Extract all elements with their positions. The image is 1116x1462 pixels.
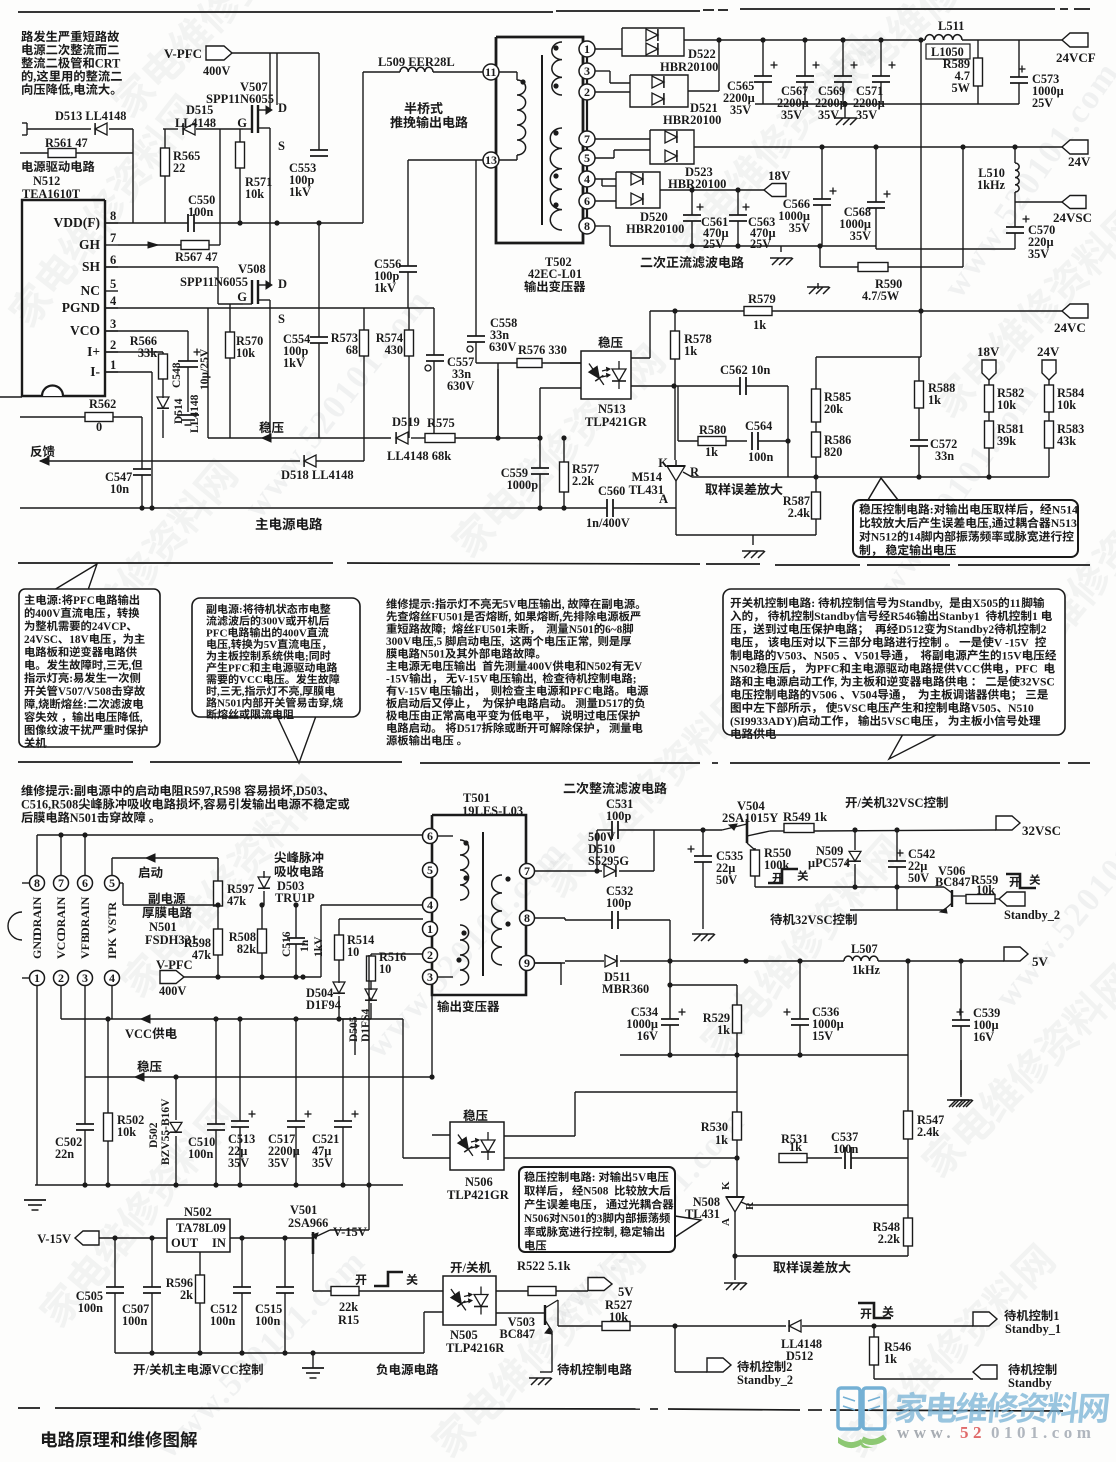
- resistor R590: [820, 147, 963, 303]
- svg-text:CRT: CRT: [95, 56, 121, 70]
- mosfet V508: [180, 223, 287, 438]
- svg-text:35V: 35V: [1028, 247, 1049, 261]
- svg-text:25V: 25V: [1032, 96, 1053, 110]
- svg-text:D502: D502: [148, 1122, 160, 1148]
- label feedback: [31, 445, 55, 457]
- svg-text:A: A: [720, 1218, 732, 1226]
- wire SH-gate: [105, 267, 243, 304]
- svg-text:,: ,: [200, 797, 203, 811]
- svg-text:V501: V501: [854, 649, 880, 662]
- svg-text:35V: 35V: [789, 221, 810, 235]
- node 24VC: [1054, 304, 1088, 335]
- capacitor C567: [796, 40, 820, 104]
- resistor R549: [783, 810, 827, 833]
- ground: [24, 1200, 46, 1210]
- wire: [631, 383, 678, 388]
- svg-text:VCO: VCO: [70, 323, 100, 338]
- svg-text:400V: 400V: [35, 608, 61, 620]
- wire pin4: [595, 179, 616, 186]
- svg-text:PFC: PFC: [73, 595, 95, 607]
- capacitor C513: [228, 1019, 256, 1185]
- resistor R531: [779, 1132, 842, 1163]
- pin 7: [579, 131, 595, 147]
- svg-text:DRAIN: DRAIN: [78, 896, 92, 936]
- wire pin6: [595, 200, 616, 202]
- transistor V504 2SA1015Y: [722, 799, 778, 850]
- pin labels N512: [54, 209, 119, 379]
- ground: [947, 1060, 970, 1107]
- svg-text:D517: D517: [457, 723, 482, 735]
- capacitor C512: [210, 1238, 251, 1353]
- label onoff 32vsc: [846, 796, 948, 810]
- svg-text:VCC: VCC: [125, 1027, 152, 1041]
- logo 520101: [838, 1388, 1109, 1448]
- diode D521: [630, 75, 721, 127]
- wire: [318, 53, 320, 150]
- svg-text:D519: D519: [392, 415, 420, 429]
- resistor R584: [1045, 380, 1085, 412]
- resistor R589: [943, 40, 983, 104]
- wire main bus: [20, 505, 676, 510]
- svg-text:R522 5.1k: R522 5.1k: [517, 1259, 571, 1273]
- svg-text:L507: L507: [851, 942, 878, 956]
- ground: [770, 246, 793, 265]
- resistor R573: [331, 308, 369, 438]
- pin 7 T501: [520, 864, 535, 879]
- svg-text:N501: N501: [70, 811, 97, 825]
- svg-text:10k: 10k: [997, 398, 1016, 412]
- svg-text:5V: 5V: [264, 639, 278, 651]
- svg-text:5V: 5V: [1032, 954, 1049, 969]
- pin 3 T501: [423, 970, 438, 985]
- wire pin2: [595, 91, 630, 93]
- svg-text:FU501: FU501: [431, 611, 463, 623]
- svg-text:SPP11N6055: SPP11N6055: [180, 275, 248, 289]
- resistor R562: [20, 397, 142, 434]
- wire 18V: [660, 187, 764, 192]
- capacitor C560: [586, 484, 630, 530]
- svg-text:10k: 10k: [245, 187, 264, 201]
- svg-text::: :: [69, 673, 73, 685]
- svg-text:V-15V: V-15V: [397, 686, 428, 698]
- wire PGND: [105, 307, 434, 309]
- ground: [692, 934, 715, 941]
- svg-text:2: 2: [786, 1360, 792, 1374]
- svg-text:100n: 100n: [78, 1301, 103, 1315]
- label sec filter: [564, 782, 667, 794]
- svg-text::: :: [58, 595, 62, 607]
- wire pin7: [595, 138, 650, 140]
- wire VCC bus: [61, 985, 403, 1023]
- svg-text:VSTR: VSTR: [105, 902, 119, 934]
- label C571: [853, 84, 885, 122]
- svg-text:D518 LL4148: D518 LL4148: [281, 468, 354, 482]
- wire gnd bus main: [35, 1182, 403, 1187]
- pin 9 T501: [520, 956, 535, 971]
- svg-text:35V: 35V: [850, 229, 871, 243]
- svg-text:430: 430: [385, 343, 403, 357]
- svg-text:,: ,: [228, 639, 231, 651]
- label VCC: [125, 1027, 177, 1041]
- resistor R514: [335, 933, 375, 977]
- node 32VSC: [996, 816, 1061, 838]
- svg-text:1: 1: [1053, 1309, 1059, 1323]
- svg-text:100n: 100n: [210, 1314, 235, 1328]
- svg-text:Standby: Standby: [1008, 1376, 1053, 1390]
- svg-text:1k: 1k: [684, 344, 697, 358]
- svg-text:1kV: 1kV: [283, 356, 305, 370]
- resistor R587: [783, 477, 821, 535]
- label driver circuit: [22, 161, 95, 201]
- svg-text:100p: 100p: [606, 809, 631, 823]
- svg-text:5VSC: 5VSC: [881, 715, 910, 728]
- svg-text:TLP421GR: TLP421GR: [447, 1188, 510, 1202]
- label sampling: [705, 483, 782, 495]
- svg-text:PFC: PFC: [228, 663, 249, 675]
- svg-text:V506: V506: [811, 689, 837, 702]
- svg-text:TA78L09: TA78L09: [176, 1221, 226, 1235]
- svg-text:N506: N506: [524, 1213, 549, 1225]
- resistor R565: [161, 129, 201, 223]
- svg-text:,: ,: [70, 83, 73, 97]
- svg-text:R576 330: R576 330: [518, 343, 567, 357]
- ground: [177, 415, 199, 425]
- svg-text:2.2k: 2.2k: [572, 474, 594, 488]
- svg-text:0101.com: 0101.com: [991, 1423, 1095, 1442]
- label wenya: [259, 421, 283, 433]
- svg-text:5: 5: [584, 151, 590, 165]
- wire pin3: [595, 71, 630, 83]
- svg-text:IN: IN: [212, 1236, 226, 1250]
- svg-text:47k: 47k: [192, 948, 211, 962]
- svg-text::: :: [70, 784, 74, 798]
- svg-text:39k: 39k: [997, 434, 1016, 448]
- svg-text:1k: 1k: [928, 393, 941, 407]
- svg-text:;: ;: [443, 624, 447, 636]
- transistor V501 2SA966: [288, 1203, 369, 1291]
- wire R547 col: [907, 961, 909, 1111]
- svg-text:2: 2: [110, 338, 116, 352]
- svg-text:35V: 35V: [268, 1156, 289, 1170]
- svg-text:,: ,: [614, 1227, 617, 1239]
- resistor R566: [105, 334, 168, 379]
- svg-text:MBR360: MBR360: [602, 982, 649, 996]
- resistor R547: [904, 1111, 945, 1205]
- svg-text:Standby_1: Standby_1: [1005, 1322, 1061, 1336]
- capacitor C557: [425, 308, 474, 438]
- wire ipk col: [111, 985, 113, 1019]
- svg-text:A: A: [659, 492, 668, 506]
- svg-text:22: 22: [173, 161, 185, 175]
- transistor V503 BC847: [496, 1300, 558, 1372]
- svg-text:Standby_2: Standby_2: [1004, 908, 1060, 922]
- svg-text:,: ,: [989, 516, 992, 530]
- resistor R548: [873, 1205, 913, 1256]
- step symbol 3: [356, 1272, 418, 1286]
- svg-text:43k: 43k: [1057, 434, 1076, 448]
- svg-text:35V: 35V: [312, 1156, 333, 1170]
- wire gnd bus: [755, 101, 1019, 106]
- svg-text:N501: N501: [569, 624, 594, 636]
- svg-text:5: 5: [110, 277, 116, 291]
- svg-text:,: ,: [129, 660, 132, 672]
- svg-text:,5: ,5: [434, 636, 443, 648]
- svg-text:,: ,: [502, 636, 505, 648]
- svg-text:N501: N501: [149, 920, 177, 934]
- svg-text:D: D: [278, 101, 287, 115]
- svg-text:4: 4: [427, 898, 433, 912]
- svg-text:1k: 1k: [717, 1023, 730, 1037]
- resistor R502: [104, 1019, 145, 1185]
- svg-text:13: 13: [485, 153, 497, 167]
- svg-text:25V: 25V: [750, 237, 771, 251]
- wire 5V dots: [667, 958, 963, 963]
- capacitor C535: [688, 830, 744, 929]
- node 24VCF: [1056, 33, 1096, 65]
- svg-text:35V: 35V: [228, 1156, 249, 1170]
- node 18V sample: [977, 344, 1000, 380]
- svg-text:18V: 18V: [69, 634, 89, 646]
- capacitor C562: [678, 363, 788, 477]
- wire: [276, 53, 278, 105]
- capacitor C566: [778, 147, 836, 246]
- label C569: [815, 84, 847, 122]
- svg-text:100n: 100n: [188, 1147, 213, 1161]
- svg-text:HBR20100: HBR20100: [660, 60, 718, 74]
- svg-text:VFB: VFB: [78, 935, 92, 959]
- svg-text:µPC574: µPC574: [808, 856, 850, 870]
- svg-text:D505: D505: [348, 1016, 360, 1042]
- resistor R527: [558, 1298, 786, 1331]
- svg-text:1: 1: [34, 971, 40, 985]
- resistor R598: [184, 906, 223, 977]
- svg-text:6: 6: [110, 253, 116, 267]
- svg-text:R549 1k: R549 1k: [783, 810, 827, 824]
- wire: [402, 1019, 404, 1158]
- wire top bus: [37, 832, 423, 875]
- svg-text::: :: [431, 599, 435, 611]
- node 5V out: [588, 1278, 633, 1300]
- svg-text:GH: GH: [79, 237, 101, 252]
- wire start: [112, 854, 218, 875]
- wire vcc ctl bus: [115, 1350, 424, 1355]
- note standby control: [723, 589, 1065, 759]
- capacitor C573: [1010, 40, 1064, 110]
- capacitor C558: [467, 160, 517, 363]
- svg-text:100n: 100n: [122, 1314, 147, 1328]
- svg-text:18V: 18V: [768, 168, 791, 183]
- svg-text:V504: V504: [852, 689, 878, 702]
- wire: [132, 129, 134, 223]
- svg-text:N505: N505: [450, 1328, 478, 1342]
- svg-text:V505: V505: [971, 702, 997, 715]
- diode N509 uPC574: [808, 830, 861, 887]
- svg-text:19LES-L03: 19LES-L03: [462, 804, 523, 818]
- svg-text:V507/V508: V507/V508: [58, 686, 112, 698]
- svg-text:N501: N501: [560, 1213, 585, 1225]
- svg-text:1: 1: [1032, 610, 1038, 623]
- svg-text:X505: X505: [972, 597, 998, 610]
- svg-text:1k: 1k: [884, 1352, 897, 1366]
- wire: [504, 1155, 740, 1160]
- svg-text:32VSC: 32VSC: [795, 913, 833, 927]
- svg-text:24VCF: 24VCF: [1056, 50, 1096, 65]
- op-amp N505 TLP4216R: [443, 1276, 505, 1355]
- svg-text:Stanby1: Stanby1: [939, 610, 980, 623]
- wire gnd bus 5v: [620, 1052, 908, 1057]
- svg-text:R567 47: R567 47: [175, 250, 218, 264]
- capacitor C568: [839, 147, 890, 249]
- node 24VSC: [1015, 196, 1092, 226]
- svg-text:,: ,: [834, 676, 837, 689]
- svg-text:2: 2: [584, 85, 590, 99]
- wire pin2: [371, 953, 423, 955]
- svg-text:2SA966: 2SA966: [288, 1216, 328, 1230]
- svg-text:LL4148 68k: LL4148 68k: [387, 449, 451, 463]
- svg-text:L511: L511: [938, 19, 964, 33]
- capacitor C516: [281, 905, 325, 977]
- svg-text:33k: 33k: [138, 346, 157, 360]
- capacitor C517: [268, 1019, 312, 1185]
- svg-text:R580: R580: [699, 423, 726, 437]
- ground: [724, 1283, 747, 1290]
- svg-text:;: ;: [305, 651, 309, 663]
- svg-text:D1FS4: D1FS4: [360, 1009, 372, 1042]
- svg-text:DRAIN: DRAIN: [54, 896, 68, 936]
- note regulation control: [853, 478, 1078, 557]
- svg-text:S: S: [278, 139, 285, 153]
- svg-text:1: 1: [584, 42, 590, 56]
- svg-text:7: 7: [524, 864, 530, 878]
- svg-text:www.: www.: [897, 1423, 955, 1442]
- svg-text:1k: 1k: [715, 1133, 728, 1147]
- svg-text:LL4148: LL4148: [189, 394, 201, 433]
- svg-text:4: 4: [110, 294, 117, 308]
- svg-text:6~8: 6~8: [605, 624, 623, 636]
- ground: [834, 104, 857, 125]
- svg-text:3: 3: [110, 317, 116, 331]
- capacitor C537: [831, 1130, 908, 1169]
- node Standby_2 out: [675, 1326, 793, 1387]
- label C565: [723, 79, 755, 117]
- svg-text:100n: 100n: [748, 450, 773, 464]
- svg-text:M514: M514: [632, 470, 663, 484]
- label T502: [524, 255, 585, 292]
- capacitor C570: [1006, 202, 1055, 261]
- svg-text:VCC: VCC: [239, 674, 263, 686]
- wire: [674, 386, 676, 460]
- svg-text:K: K: [720, 1181, 732, 1190]
- svg-text:400V: 400V: [282, 627, 307, 639]
- wire wenya bus: [85, 985, 435, 1081]
- wire bus3: [876, 248, 1015, 250]
- svg-text:11: 11: [485, 65, 496, 79]
- svg-text:V501: V501: [290, 1203, 317, 1217]
- capacitor C531: [597, 797, 654, 839]
- svg-text:V-15V: V-15V: [333, 1225, 367, 1239]
- svg-text:I+: I+: [87, 344, 100, 359]
- capacitor C554: [283, 223, 328, 438]
- svg-text:C548: C548: [171, 362, 183, 388]
- svg-text:,: ,: [559, 611, 562, 623]
- svg-text:R579: R579: [748, 292, 776, 306]
- svg-text:,: ,: [300, 686, 303, 698]
- wire pin5 loop: [119, 883, 123, 905]
- svg-text:100n: 100n: [255, 1314, 280, 1328]
- svg-text:3: 3: [82, 971, 88, 985]
- diode D519: [392, 415, 420, 444]
- svg-text:BZV55-B16V: BZV55-B16V: [160, 1098, 172, 1165]
- svg-text:6: 6: [427, 829, 433, 843]
- note repair hint middle: [386, 598, 648, 745]
- node Standby_1: [973, 1309, 1061, 1336]
- svg-text:HBR20100: HBR20100: [626, 222, 684, 236]
- node Standby_2 in: [999, 892, 1060, 922]
- svg-text:V503: V503: [776, 649, 802, 662]
- resistor R596: [166, 1252, 205, 1353]
- diode D502 zener: [148, 1077, 182, 1185]
- node 18V: [764, 168, 791, 197]
- svg-text:5VSC: 5VSC: [837, 702, 866, 715]
- resistor R522: [496, 1259, 588, 1296]
- wire: [495, 363, 500, 441]
- resistor R586: [812, 422, 852, 477]
- wire: [676, 534, 816, 536]
- svg-text:68: 68: [346, 343, 358, 357]
- svg-text:N513: N513: [1051, 516, 1077, 530]
- wire: [631, 311, 650, 358]
- svg-text:4: 4: [584, 172, 590, 186]
- svg-text:1: 1: [427, 922, 433, 936]
- svg-text:47k: 47k: [227, 894, 246, 908]
- wire: [816, 311, 921, 357]
- svg-text:24VC: 24VC: [1054, 320, 1086, 335]
- svg-text:7: 7: [58, 876, 64, 890]
- svg-text:820: 820: [824, 445, 842, 459]
- inductor L509: [363, 55, 483, 223]
- resistor R577: [560, 435, 600, 510]
- capacitor C510: [188, 1019, 225, 1185]
- svg-text:,: ,: [508, 611, 511, 623]
- capacitor C572: [910, 437, 957, 477]
- svg-text:,: ,: [534, 673, 537, 685]
- step symbol: [768, 869, 808, 883]
- label main supply: [256, 517, 323, 530]
- node V-PFC: [164, 46, 319, 78]
- svg-text:630V: 630V: [489, 340, 516, 354]
- label onoff opto: [451, 1261, 491, 1275]
- svg-text:G: G: [237, 116, 247, 130]
- svg-text:2: 2: [427, 948, 433, 962]
- title: [42, 1431, 197, 1448]
- svg-text:D1F94: D1F94: [306, 998, 341, 1012]
- svg-text:DRAIN: DRAIN: [30, 896, 44, 936]
- wire VDD bus: [237, 220, 363, 225]
- svg-text:22k: 22k: [339, 1300, 358, 1314]
- label wenya3: [463, 1109, 487, 1121]
- svg-text:32VSC: 32VSC: [1020, 676, 1055, 689]
- svg-text:4: 4: [109, 971, 115, 985]
- svg-text::: :: [592, 1172, 596, 1184]
- diode D520: [616, 172, 684, 236]
- svg-text:6: 6: [82, 876, 88, 890]
- resistor R546: [870, 1326, 912, 1379]
- svg-text:V-15V: V-15V: [457, 673, 488, 685]
- capacitor C569: [834, 40, 858, 104]
- svg-text:11: 11: [1010, 597, 1021, 610]
- svg-text:C516,R508: C516,R508: [21, 797, 78, 811]
- capacitor C547: [105, 417, 151, 508]
